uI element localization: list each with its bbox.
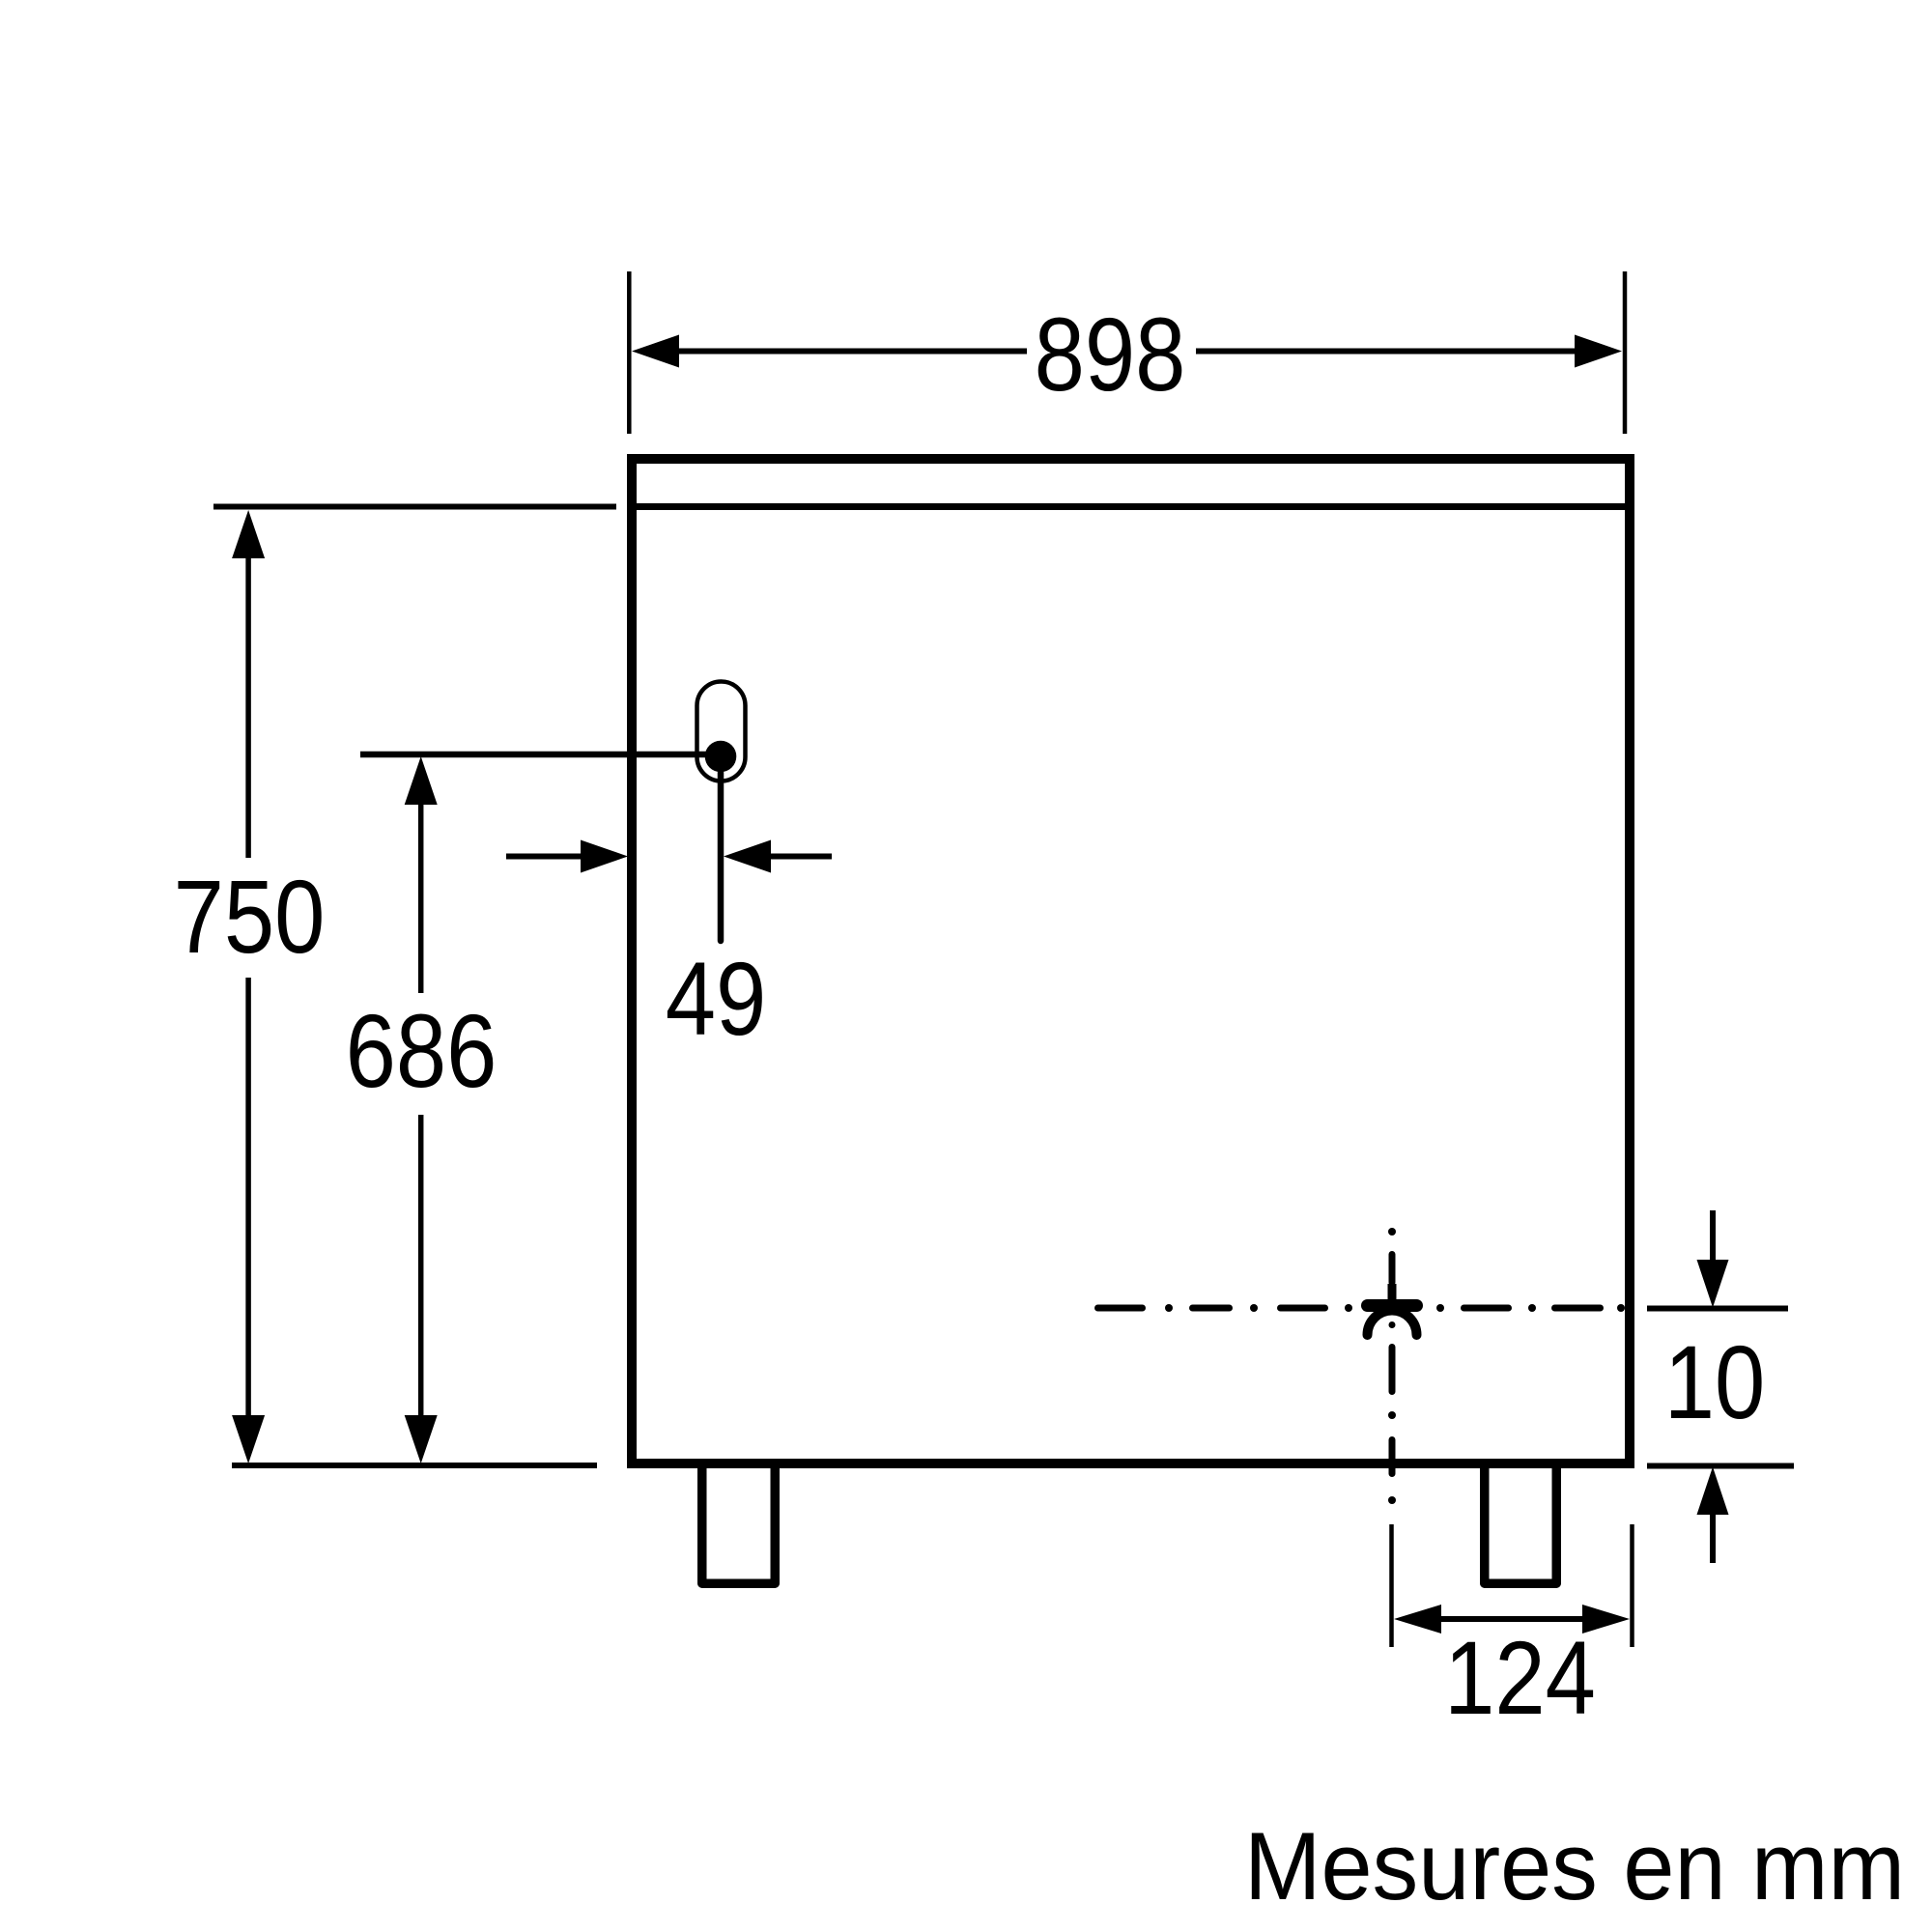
svg-text:124: 124: [1444, 1620, 1596, 1737]
svg-text:686: 686: [346, 993, 497, 1110]
svg-text:10: 10: [1664, 1324, 1766, 1441]
svg-text:49: 49: [666, 941, 767, 1058]
svg-text:750: 750: [174, 859, 326, 976]
svg-text:898: 898: [1035, 297, 1186, 413]
svg-text:Mesures en mm: Mesures en mm: [1244, 1812, 1905, 1919]
